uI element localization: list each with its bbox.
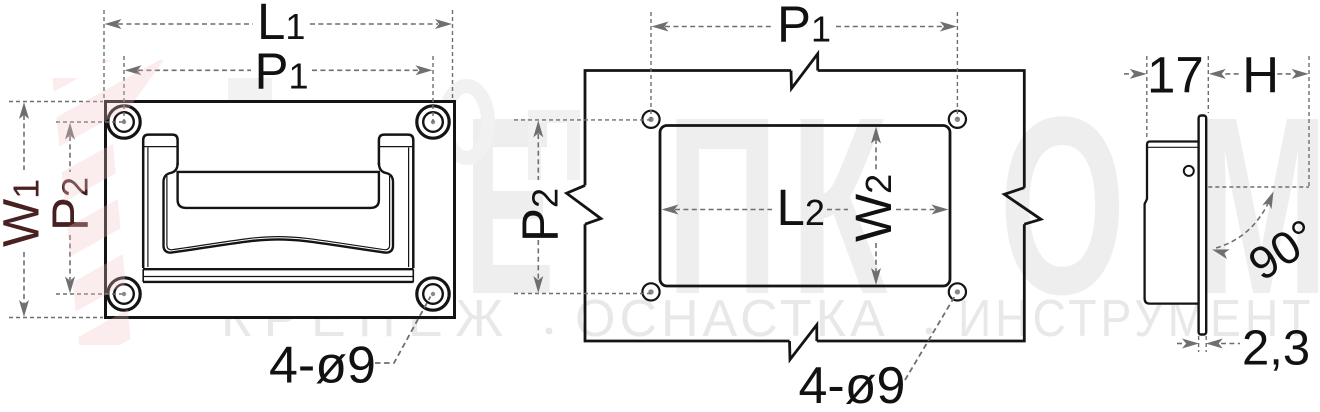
svg-text:P1: P1 xyxy=(777,0,831,53)
svg-text:4-ø9: 4-ø9 xyxy=(269,337,376,395)
svg-text:4-ø9: 4-ø9 xyxy=(799,357,906,407)
svg-text:17: 17 xyxy=(1147,47,1204,104)
svg-text:2,3: 2,3 xyxy=(1242,322,1310,376)
svg-text:H: H xyxy=(1242,47,1279,104)
svg-text:ОСНАСТКА: ОСНАСТКА xyxy=(575,290,889,348)
